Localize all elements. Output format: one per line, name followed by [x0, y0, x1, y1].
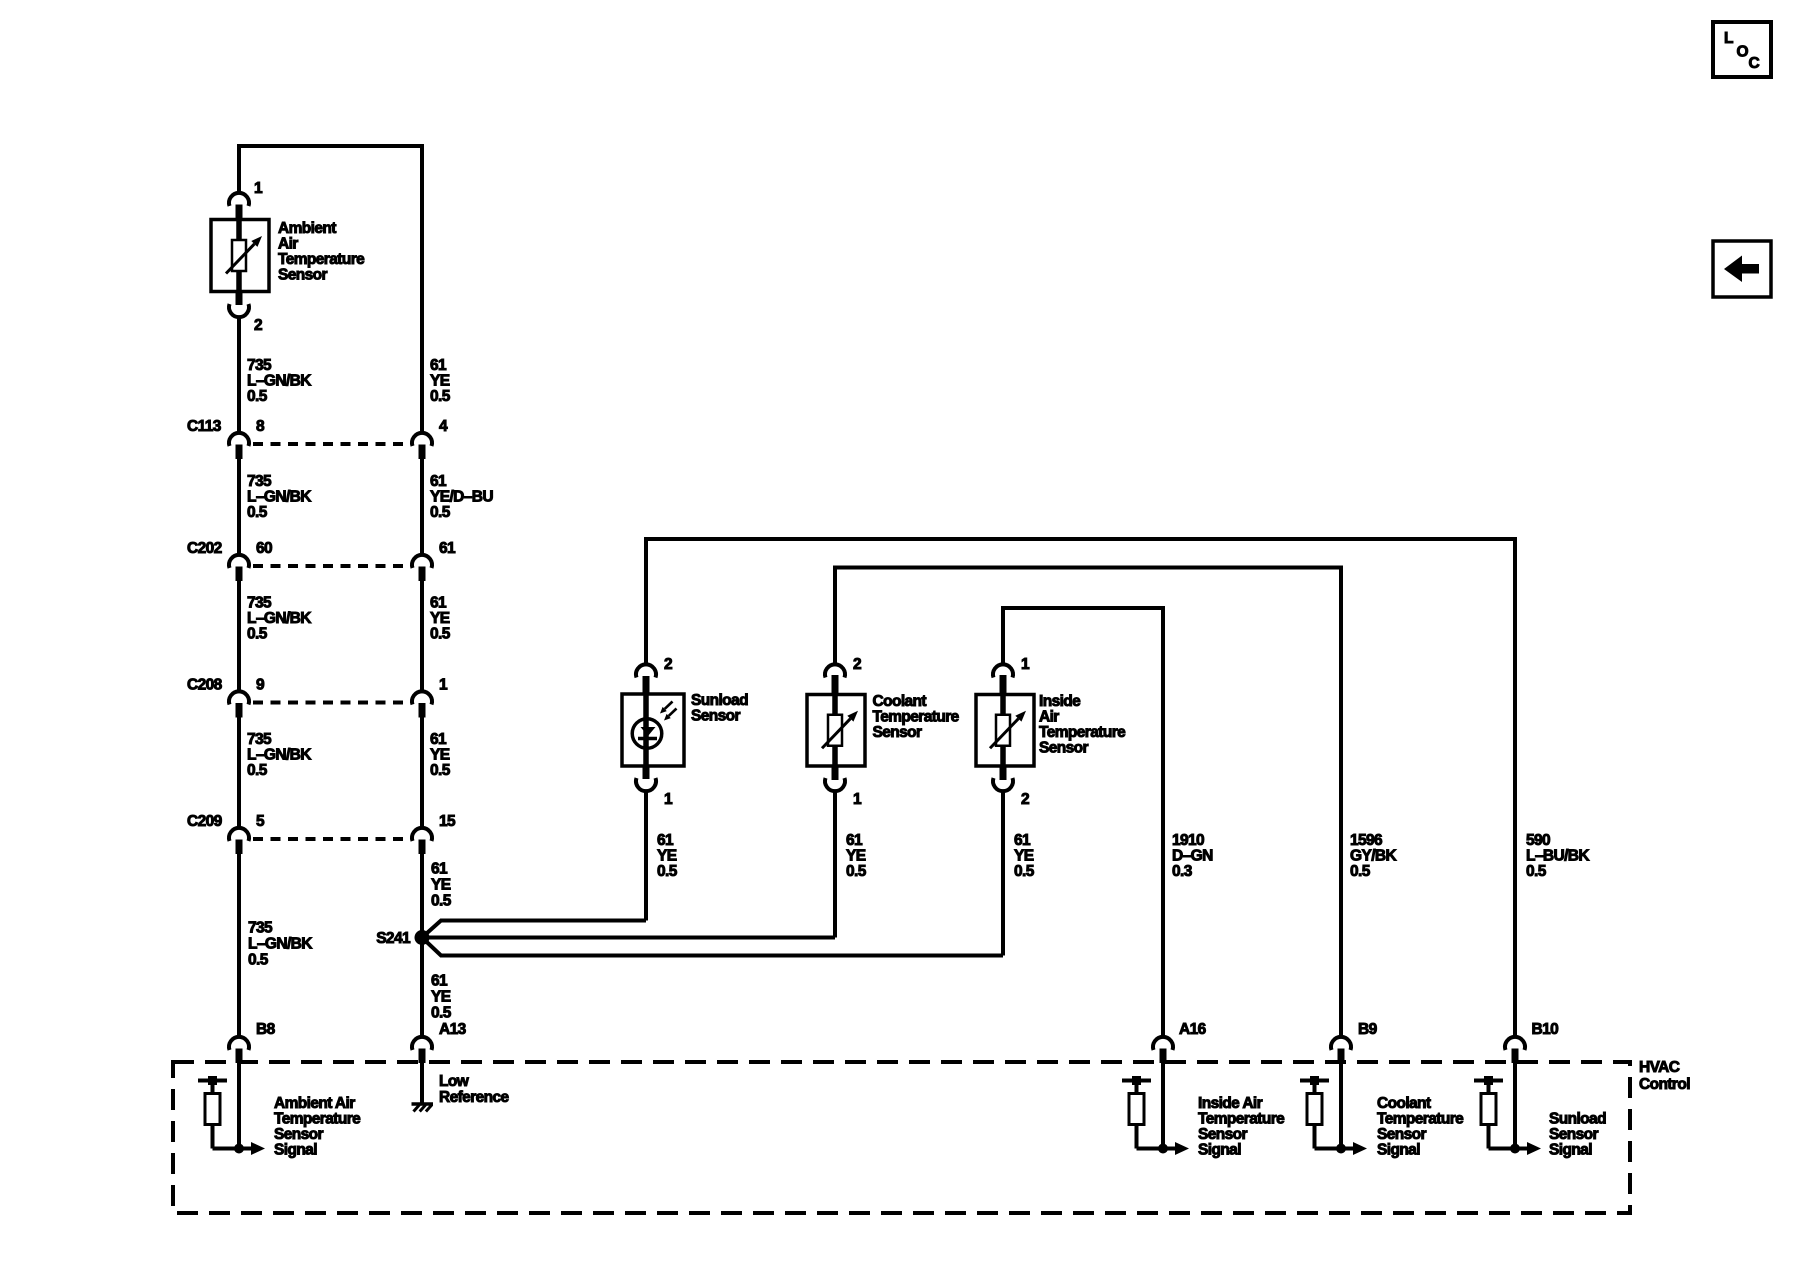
- svg-text:0.3: 0.3: [1172, 863, 1193, 880]
- svg-text:Temperature: Temperature: [1039, 724, 1126, 741]
- svg-text:61: 61: [430, 731, 447, 748]
- svg-text:735: 735: [247, 731, 272, 748]
- svg-text:0.5: 0.5: [247, 388, 268, 405]
- svg-text:B10: B10: [1532, 1021, 1559, 1038]
- svg-text:1596: 1596: [1350, 832, 1383, 849]
- svg-text:0.5: 0.5: [431, 893, 452, 910]
- svg-text:0.5: 0.5: [247, 626, 268, 643]
- svg-text:1: 1: [439, 677, 448, 694]
- svg-text:B8: B8: [256, 1021, 276, 1038]
- svg-text:0.5: 0.5: [430, 504, 451, 521]
- svg-text:Air: Air: [1039, 709, 1059, 726]
- svg-text:HVAC: HVAC: [1639, 1059, 1680, 1076]
- svg-text:0.5: 0.5: [1526, 863, 1547, 880]
- svg-text:2: 2: [1021, 791, 1029, 808]
- svg-text:61: 61: [1014, 832, 1031, 849]
- svg-text:L–BU/BK: L–BU/BK: [1526, 848, 1590, 865]
- svg-text:61: 61: [431, 973, 448, 990]
- svg-text:735: 735: [247, 357, 272, 374]
- svg-text:Sensor: Sensor: [1377, 1126, 1427, 1143]
- svg-text:Signal: Signal: [1549, 1142, 1592, 1159]
- svg-text:YE: YE: [430, 373, 450, 390]
- svg-text:1: 1: [254, 180, 263, 197]
- svg-text:Sunload: Sunload: [1549, 1111, 1606, 1128]
- svg-text:Coolant: Coolant: [873, 693, 927, 710]
- svg-text:O: O: [1737, 44, 1749, 61]
- svg-text:0.5: 0.5: [430, 762, 451, 779]
- svg-text:Signal: Signal: [1377, 1142, 1420, 1159]
- svg-text:C113: C113: [187, 418, 222, 435]
- svg-text:Control: Control: [1639, 1076, 1690, 1093]
- svg-text:Temperature: Temperature: [873, 709, 960, 726]
- svg-text:Temperature: Temperature: [278, 251, 365, 268]
- svg-text:YE: YE: [657, 848, 677, 865]
- svg-text:Sensor: Sensor: [278, 267, 328, 284]
- svg-text:0.5: 0.5: [248, 952, 269, 969]
- svg-text:Air: Air: [278, 236, 298, 253]
- svg-text:15: 15: [439, 813, 456, 830]
- svg-text:Inside: Inside: [1039, 693, 1081, 710]
- svg-text:Sunload: Sunload: [691, 692, 748, 709]
- svg-text:C209: C209: [187, 813, 223, 830]
- svg-text:YE: YE: [430, 747, 450, 764]
- svg-text:61: 61: [430, 595, 447, 612]
- svg-text:Sensor: Sensor: [873, 724, 923, 741]
- svg-text:A13: A13: [439, 1021, 467, 1038]
- svg-text:735: 735: [248, 920, 273, 937]
- svg-text:Low: Low: [439, 1073, 470, 1090]
- svg-text:YE: YE: [846, 848, 866, 865]
- svg-text:0.5: 0.5: [1350, 863, 1371, 880]
- svg-text:S241: S241: [376, 930, 411, 947]
- svg-text:YE: YE: [431, 989, 451, 1006]
- svg-text:Temperature: Temperature: [1198, 1111, 1285, 1128]
- svg-text:0.5: 0.5: [657, 863, 678, 880]
- svg-text:0.5: 0.5: [247, 504, 268, 521]
- svg-text:1910: 1910: [1172, 832, 1204, 849]
- svg-text:L–GN/BK: L–GN/BK: [247, 489, 312, 506]
- svg-text:Coolant: Coolant: [1377, 1095, 1431, 1112]
- svg-text:B9: B9: [1358, 1021, 1378, 1038]
- svg-text:A16: A16: [1179, 1021, 1207, 1038]
- svg-text:0.5: 0.5: [1014, 863, 1035, 880]
- svg-text:C208: C208: [187, 677, 223, 694]
- svg-text:Ambient Air: Ambient Air: [274, 1095, 355, 1112]
- svg-text:5: 5: [256, 813, 265, 830]
- svg-text:61: 61: [657, 832, 674, 849]
- svg-text:61: 61: [430, 473, 447, 490]
- svg-text:D–GN: D–GN: [1172, 848, 1213, 865]
- svg-text:Sensor: Sensor: [1549, 1126, 1599, 1143]
- svg-text:0.5: 0.5: [430, 388, 451, 405]
- svg-text:590: 590: [1526, 832, 1550, 849]
- svg-text:9: 9: [256, 677, 265, 694]
- svg-text:61: 61: [431, 861, 448, 878]
- svg-text:Reference: Reference: [439, 1089, 510, 1106]
- svg-text:0.5: 0.5: [247, 762, 268, 779]
- svg-text:Inside Air: Inside Air: [1198, 1095, 1263, 1112]
- svg-text:YE: YE: [1014, 848, 1034, 865]
- svg-text:0.5: 0.5: [846, 863, 867, 880]
- svg-text:1: 1: [853, 791, 862, 808]
- svg-text:735: 735: [247, 473, 272, 490]
- svg-text:YE/D–BU: YE/D–BU: [430, 489, 493, 506]
- svg-text:735: 735: [247, 595, 272, 612]
- svg-text:C202: C202: [187, 540, 222, 557]
- svg-text:Temperature: Temperature: [1377, 1111, 1464, 1128]
- svg-text:Temperature: Temperature: [274, 1111, 361, 1128]
- svg-text:60: 60: [256, 540, 272, 557]
- svg-text:0.5: 0.5: [430, 626, 451, 643]
- svg-text:0.5: 0.5: [431, 1005, 452, 1022]
- svg-text:1: 1: [664, 791, 673, 808]
- svg-text:Signal: Signal: [274, 1142, 317, 1159]
- svg-text:L: L: [1724, 30, 1733, 47]
- svg-text:2: 2: [853, 656, 861, 673]
- svg-text:2: 2: [664, 656, 672, 673]
- svg-text:Ambient: Ambient: [278, 220, 336, 237]
- svg-text:L–GN/BK: L–GN/BK: [247, 610, 312, 627]
- svg-text:2: 2: [254, 317, 262, 334]
- svg-text:GY/BK: GY/BK: [1350, 848, 1397, 865]
- svg-text:4: 4: [439, 418, 448, 435]
- svg-text:L–GN/BK: L–GN/BK: [247, 373, 312, 390]
- svg-text:Signal: Signal: [1198, 1142, 1241, 1159]
- svg-text:Sensor: Sensor: [274, 1126, 324, 1143]
- svg-text:YE: YE: [430, 610, 450, 627]
- svg-text:61: 61: [430, 357, 447, 374]
- svg-text:61: 61: [846, 832, 863, 849]
- svg-text:L–GN/BK: L–GN/BK: [248, 936, 313, 953]
- svg-text:L–GN/BK: L–GN/BK: [247, 747, 312, 764]
- svg-text:Sensor: Sensor: [1198, 1126, 1248, 1143]
- svg-text:Sensor: Sensor: [1039, 740, 1089, 757]
- svg-text:61: 61: [439, 540, 456, 557]
- svg-text:Sensor: Sensor: [691, 708, 741, 725]
- svg-text:C: C: [1749, 55, 1760, 72]
- svg-text:1: 1: [1021, 656, 1030, 673]
- svg-text:YE: YE: [431, 877, 451, 894]
- svg-text:8: 8: [256, 418, 265, 435]
